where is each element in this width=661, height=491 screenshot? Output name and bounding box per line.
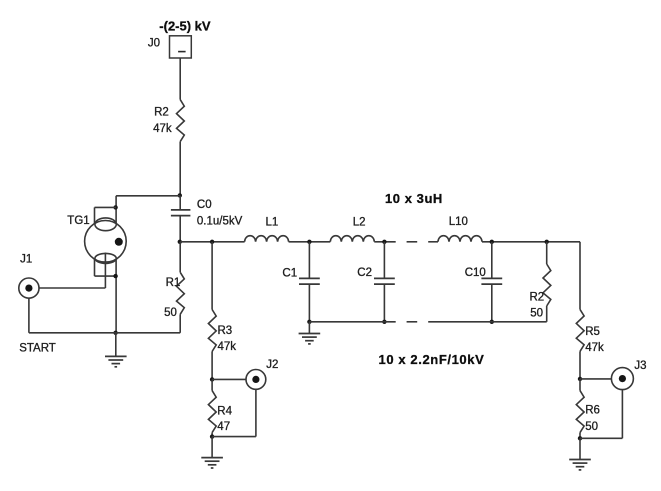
svg-text:R2: R2 (530, 291, 545, 303)
svg-text:L2: L2 (353, 216, 366, 228)
svg-text:R3: R3 (218, 325, 233, 337)
svg-text:L10: L10 (449, 216, 468, 228)
svg-text:J2: J2 (266, 359, 278, 371)
svg-text:C2: C2 (357, 267, 372, 279)
svg-text:R5: R5 (585, 326, 600, 338)
svg-text:50: 50 (530, 307, 543, 319)
svg-text:C0: C0 (197, 199, 212, 211)
svg-text:47k: 47k (585, 342, 604, 354)
svg-text:10 x 3uH: 10 x 3uH (385, 191, 443, 206)
svg-text:47k: 47k (218, 341, 237, 353)
svg-text:0.1u/5kV: 0.1u/5kV (197, 216, 243, 228)
svg-text:10 x 2.2nF/10kV: 10 x 2.2nF/10kV (379, 352, 485, 367)
svg-text:START: START (19, 343, 56, 355)
svg-text:J0: J0 (148, 38, 160, 50)
svg-text:R2: R2 (154, 106, 169, 118)
svg-text:R6: R6 (585, 405, 600, 417)
svg-text:50: 50 (585, 421, 598, 433)
svg-text:47k: 47k (153, 123, 172, 135)
svg-text:R4: R4 (217, 405, 232, 417)
svg-text:R1: R1 (166, 277, 181, 289)
svg-text:C10: C10 (465, 267, 486, 279)
svg-text:-(2-5) kV: -(2-5) kV (159, 18, 211, 33)
svg-text:L1: L1 (266, 216, 279, 228)
svg-text:J3: J3 (634, 360, 646, 372)
svg-text:50: 50 (164, 307, 177, 319)
svg-text:TG1: TG1 (67, 215, 89, 227)
svg-text:J1: J1 (20, 254, 32, 266)
svg-text:47: 47 (217, 421, 230, 433)
svg-text:C1: C1 (282, 267, 297, 279)
